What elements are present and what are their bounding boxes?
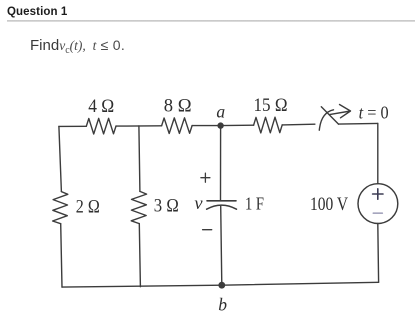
wire: right side, corner down to source top [377, 123, 379, 183]
resistor R5 3 ohm (vertical) [131, 191, 146, 223]
wire: left side, 2-ohm up to top-left corner [59, 126, 62, 191]
wire: bottom right segment (corner to node b) [222, 282, 379, 285]
voltage source V1 circle [358, 184, 398, 224]
wire: 15-ohm to switch left contact [282, 123, 315, 126]
voltage source minus sign [373, 212, 382, 214]
svg-text:3 Ω: 3 Ω [154, 196, 179, 216]
wire: left side, bottom corner up to 2-ohm resistor [61, 224, 62, 287]
switch SW1 blade [321, 107, 338, 124]
resistor R3 15 ohm (horizontal) [254, 117, 283, 133]
svg-text:8 Ω: 8 Ω [164, 96, 192, 116]
wire: top-left corner to 4-ohm resistor [59, 125, 86, 127]
svg-text:a: a [216, 101, 225, 121]
capacitor plus polarity sign [201, 173, 210, 182]
wire: bottom left segment (node b to bottom-left corner) [62, 285, 222, 287]
wire: node a to 15-ohm resistor [221, 124, 254, 126]
svg-text:100 V: 100 V [310, 195, 349, 215]
node b junction dot [218, 282, 225, 289]
svg-text:v: v [194, 193, 202, 213]
wire: node a down to capacitor top plate [220, 126, 222, 201]
wire: source bottom to bottom-right corner [377, 224, 380, 283]
capacitor C1 curved bottom plate [207, 205, 237, 209]
svg-text:t = 0: t = 0 [359, 102, 389, 122]
resistor R2 8 ohm (horizontal) [162, 118, 193, 134]
header underline rule [7, 20, 415, 22]
wire: 4-ohm to 8-ohm (through 3-ohm junction) [116, 125, 162, 127]
resistor R1 4 ohm (horizontal) [86, 118, 116, 134]
wire: capacitor bottom plate down to node b [221, 206, 222, 286]
wire: 3-ohm resistor down to bottom wire [139, 224, 140, 287]
resistor R4 2 ohm (vertical) [53, 192, 68, 224]
header: Question 1 [7, 6, 67, 18]
wire: 8-ohm to node a [192, 125, 221, 127]
voltage source plus sign [373, 189, 383, 199]
svg-text:15 Ω: 15 Ω [254, 96, 288, 116]
prompt text: Find vc(t), t<=0. [30, 37, 125, 56]
switch SW1 motion arc [319, 110, 333, 130]
svg-text:2 Ω: 2 Ω [76, 197, 100, 217]
svg-text:b: b [218, 294, 227, 314]
capacitor C1 top plate [207, 200, 236, 202]
switch SW1 closing arrow [330, 105, 351, 118]
node a junction dot [217, 122, 223, 128]
capacitor minus polarity sign [203, 229, 212, 231]
svg-text:1 F: 1 F [245, 193, 264, 213]
svg-text:4 Ω: 4 Ω [88, 97, 114, 117]
wire: 3-ohm branch, junction down to resistor [139, 126, 140, 191]
wire: switch right contact to top-right corner [339, 122, 378, 125]
